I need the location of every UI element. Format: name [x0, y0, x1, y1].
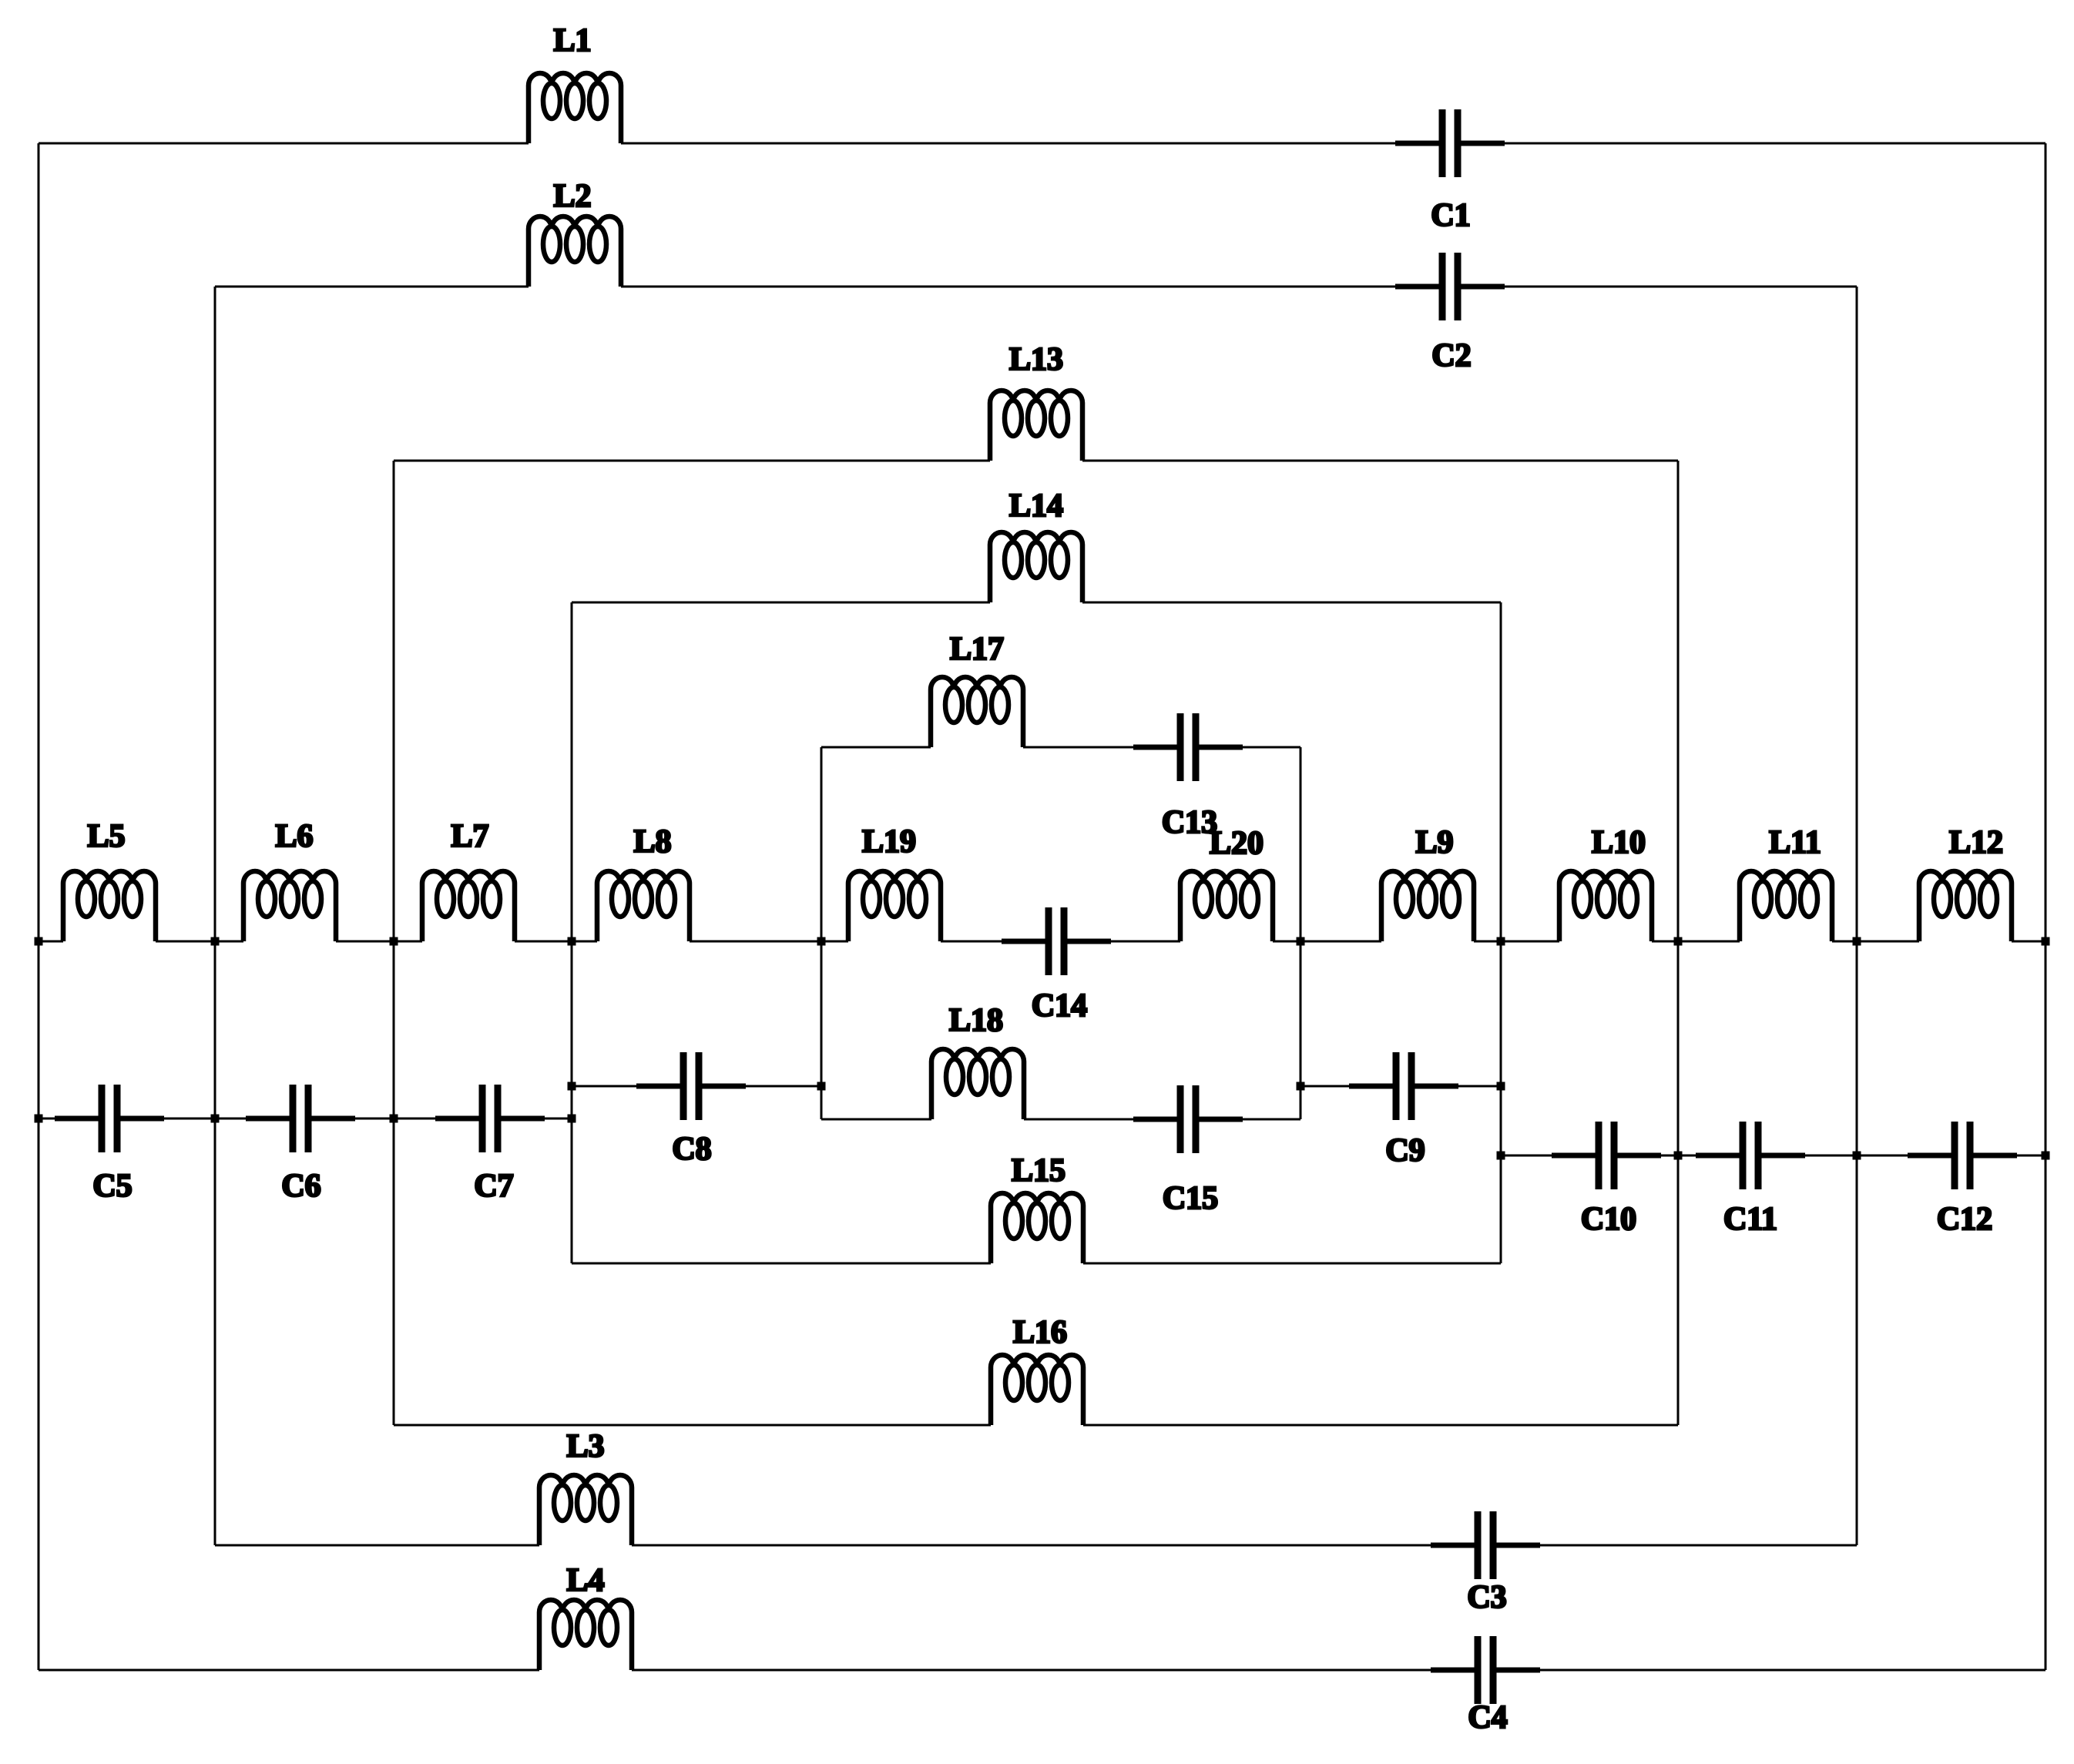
inductor L13	[990, 391, 1082, 461]
capacitor C4	[1431, 1636, 1540, 1704]
svg-text:L15: L15	[1012, 1153, 1066, 1189]
node C10row/V8	[1674, 1152, 1683, 1160]
svg-text:C1: C1	[1431, 198, 1470, 233]
svg-text:L8: L8	[633, 824, 671, 860]
svg-text:L2: L2	[553, 179, 591, 214]
wire inner loop left edge	[821, 747, 823, 1119]
inductor L11	[1740, 871, 1832, 941]
wire 4th loop left edge	[571, 602, 573, 1263]
svg-text:L6: L6	[275, 819, 313, 854]
node C9row/V6	[1297, 1082, 1305, 1091]
inductor L16	[991, 1355, 1083, 1425]
node main/V7	[1497, 937, 1505, 946]
capacitor C11	[1696, 1122, 1805, 1189]
svg-text:L13: L13	[1009, 342, 1063, 377]
capacitor C7	[435, 1085, 545, 1152]
wire C8 row	[572, 1085, 821, 1088]
svg-text:C12: C12	[1937, 1202, 1992, 1237]
wire 4th loop top edge	[572, 602, 1501, 604]
svg-text:C3: C3	[1467, 1580, 1506, 1615]
svg-text:C6: C6	[281, 1169, 320, 1204]
node caprow/V1	[35, 1115, 43, 1123]
svg-text:C14: C14	[1032, 988, 1087, 1024]
svg-text:L14: L14	[1009, 488, 1063, 524]
node C8row/V5	[817, 1082, 826, 1091]
svg-text:L10: L10	[1592, 825, 1646, 860]
svg-text:L11: L11	[1769, 825, 1821, 860]
inductor L18	[931, 1049, 1024, 1119]
wire inner loop top edge	[821, 746, 1300, 749]
node main/V5	[817, 937, 826, 946]
node caprow/V4	[568, 1115, 576, 1123]
svg-text:C7: C7	[474, 1169, 513, 1204]
wire outer loop left edge	[38, 143, 40, 1670]
capacitor C6	[246, 1085, 355, 1152]
svg-text:C8: C8	[672, 1132, 711, 1167]
inductor L9	[1381, 871, 1474, 941]
wire 3rd loop bottom edge	[394, 1424, 1678, 1427]
wire 3rd loop right edge	[1677, 461, 1680, 1425]
inductor L10	[1559, 871, 1652, 941]
svg-text:C15: C15	[1163, 1181, 1218, 1216]
wire inner loop bottom edge	[821, 1118, 1300, 1121]
node C10row/V7	[1497, 1152, 1505, 1160]
capacitor C5	[55, 1085, 164, 1152]
svg-text:L18: L18	[949, 1003, 1003, 1038]
wire 4th loop right edge	[1500, 602, 1502, 1263]
svg-text:L16: L16	[1013, 1315, 1067, 1350]
inductor L2	[529, 216, 621, 287]
svg-text:L20: L20	[1210, 826, 1264, 861]
svg-text:C4: C4	[1468, 1700, 1507, 1735]
wire C9 row	[1300, 1085, 1501, 1088]
node C9row/V7	[1497, 1082, 1505, 1091]
node main/V4	[568, 937, 576, 946]
svg-text:L5: L5	[87, 819, 125, 854]
svg-text:L12: L12	[1949, 825, 2003, 860]
wire 3rd loop left edge	[393, 461, 395, 1425]
capacitor C13	[1133, 713, 1243, 781]
node main/V10	[2042, 937, 2050, 946]
inductor L4	[539, 1600, 632, 1670]
inductor L15	[991, 1193, 1083, 1263]
capacitor C15	[1133, 1085, 1243, 1153]
inductor L14	[990, 532, 1082, 602]
svg-text:L1: L1	[553, 23, 591, 59]
wire C5-C7 row	[39, 1118, 572, 1120]
capacitor C3	[1431, 1511, 1540, 1579]
capacitor C8	[636, 1052, 746, 1120]
svg-text:L3: L3	[566, 1429, 604, 1464]
capacitor C14	[1002, 907, 1111, 975]
wire 4th loop bottom edge	[572, 1263, 1501, 1265]
inductor L20	[1180, 871, 1273, 941]
inductor L12	[1919, 871, 2012, 941]
svg-text:C11: C11	[1723, 1202, 1777, 1237]
node main/V6	[1297, 937, 1305, 946]
inductor L8	[597, 871, 690, 941]
wire 2nd loop left edge	[214, 287, 216, 1545]
inductor L7	[422, 871, 515, 941]
wire C10-C12 row	[1501, 1155, 2045, 1157]
svg-text:L9: L9	[1415, 825, 1453, 860]
inductor L6	[243, 871, 336, 941]
wire outer loop top edge	[39, 143, 2045, 145]
inductor L19	[848, 871, 941, 941]
inductor L5	[63, 871, 156, 941]
wire 3rd loop top edge	[394, 460, 1678, 462]
svg-text:L19: L19	[862, 824, 916, 860]
capacitor C10	[1552, 1122, 1661, 1189]
inductor L3	[539, 1475, 632, 1545]
wire outer loop right edge	[2045, 143, 2047, 1670]
node main/V2	[211, 937, 220, 946]
svg-text:C5: C5	[92, 1169, 132, 1204]
svg-text:L4: L4	[566, 1563, 604, 1598]
svg-text:C2: C2	[1431, 338, 1471, 374]
capacitor C9	[1349, 1052, 1458, 1120]
node caprow/V2	[211, 1115, 220, 1123]
wire main row	[39, 941, 2045, 943]
svg-text:C10: C10	[1581, 1202, 1636, 1237]
capacitor C2	[1395, 253, 1505, 320]
wire outer loop bottom edge	[39, 1669, 2045, 1672]
svg-text:L7: L7	[451, 819, 488, 854]
capacitor C1	[1395, 109, 1505, 177]
node C10row/V9	[1853, 1152, 1861, 1160]
wire 2nd loop right edge	[1856, 287, 1858, 1545]
svg-text:L17: L17	[950, 632, 1004, 667]
node main/V8	[1674, 937, 1683, 946]
node C10row/V10	[2042, 1152, 2050, 1160]
svg-text:C9: C9	[1385, 1133, 1425, 1169]
capacitor C12	[1908, 1122, 2017, 1189]
wire 2nd loop bottom edge	[215, 1544, 1857, 1547]
inductor L17	[931, 677, 1023, 747]
node caprow/V3	[390, 1115, 398, 1123]
wire 2nd loop top edge	[215, 286, 1857, 288]
wire inner loop right edge	[1300, 747, 1302, 1119]
node main/V3	[390, 937, 398, 946]
node C8row/V4	[568, 1082, 576, 1091]
node main/V9	[1853, 937, 1861, 946]
node main/V1	[35, 937, 43, 946]
inductor L1	[529, 73, 621, 143]
